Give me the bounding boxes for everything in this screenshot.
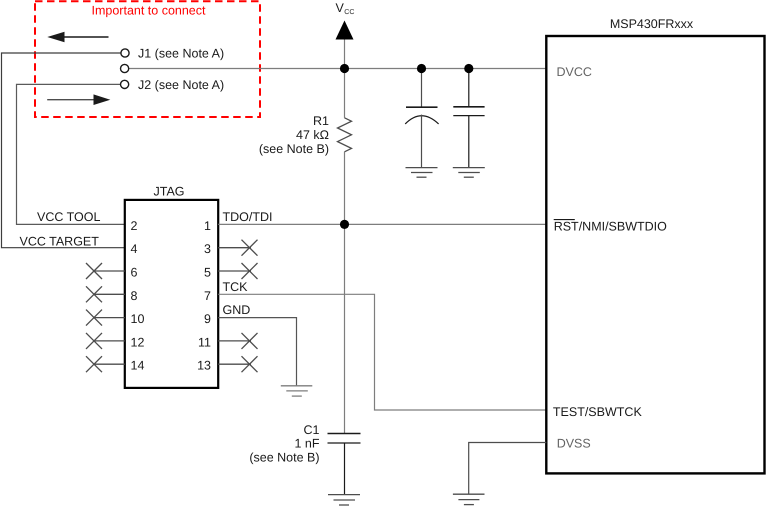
label R1 value (259, 114, 329, 156)
svg-text:J2 (see Note A): J2 (see Note A) (138, 78, 224, 92)
svg-text:14: 14 (131, 359, 145, 373)
svg-text:(see Note B): (see Note B) (259, 142, 329, 156)
svg-text:DVSS: DVSS (557, 436, 591, 450)
pin numbers (left column) (131, 219, 145, 373)
svg-text:CC: CC (344, 9, 354, 16)
red emphasis box "Important to connect" (35, 1, 260, 117)
svg-text:R1: R1 (313, 114, 329, 128)
arrow (left-pointing) (47, 32, 108, 43)
overline on RST (554, 219, 575, 221)
Vcc supply symbol (336, 21, 354, 69)
svg-text:GND: GND (223, 303, 251, 317)
svg-text:2: 2 (131, 219, 138, 233)
wire: DVSS to ground (469, 443, 547, 495)
wire: R1 down to C1 (344, 152, 346, 434)
svg-text:TEST/SBWTCK: TEST/SBWTCK (553, 405, 643, 419)
ground (polarized cap) (406, 168, 438, 178)
svg-text:(see Note B): (see Note B) (249, 451, 319, 465)
wire: TDO/TDI (pin 1) to MSP430 RST (218, 223, 546, 225)
ground (JTAG GND pin) (281, 386, 313, 396)
svg-text:TDO/TDI: TDO/TDI (223, 210, 273, 224)
node: Vcc rail / R1 junction (340, 64, 349, 73)
capacitor plate (top) (453, 106, 484, 108)
label C1 value (249, 423, 320, 465)
node: bypass cap 2 on rail (464, 64, 473, 73)
no-connect pin 12 (86, 333, 125, 349)
no-connect pin 13 (218, 356, 257, 372)
capacitor C1 plate (top) (328, 433, 361, 435)
ground (C1) (328, 495, 360, 505)
svg-text:TCK: TCK (223, 280, 249, 294)
wire: TCK (pin 7) to MSP430 TEST (218, 294, 546, 410)
ground (DVSS) (453, 494, 485, 504)
no-connect pin 11 (218, 333, 257, 349)
jumper center pin circle (121, 64, 129, 72)
capacitor curved plate (405, 116, 438, 124)
capacitor plate (top, polarized cap) (406, 106, 438, 108)
svg-text:47 kΩ: 47 kΩ (296, 128, 329, 142)
svg-text:11: 11 (198, 335, 211, 349)
no-connect pin 14 (86, 356, 125, 372)
wire: J1 to left vertical (2, 53, 125, 248)
svg-text:1: 1 (204, 219, 211, 233)
svg-text:10: 10 (131, 312, 145, 326)
capacitor C1 plate (bottom) (328, 442, 361, 444)
capacitor plate (bottom) (453, 115, 484, 117)
svg-text:7: 7 (204, 289, 211, 303)
svg-text:VCC TARGET: VCC TARGET (20, 234, 100, 248)
svg-text:RST/NMI/SBWTDIO: RST/NMI/SBWTDIO (554, 220, 667, 234)
resistor R1 47 kOhm (338, 118, 352, 152)
svg-text:8: 8 (131, 289, 138, 303)
pin numbers (right column) (197, 219, 211, 373)
svg-text:1 nF: 1 nF (294, 437, 319, 451)
svg-text:9: 9 (204, 312, 211, 326)
no-connect pin 3 (218, 240, 257, 256)
node: bypass cap 1 on rail (417, 64, 426, 73)
svg-text:V: V (336, 1, 345, 15)
jumper J2 pin circle (121, 80, 129, 88)
node: RST wire junction (340, 220, 349, 229)
no-connect pin 6 (86, 263, 125, 279)
wire: J2 to second vertical (17, 84, 125, 224)
MSP430FRxxx device box (546, 36, 764, 473)
svg-text:C1: C1 (304, 423, 320, 437)
wire: Vcc rail (center pin to MSP430 DVCC) (129, 68, 546, 70)
wire: C1 to ground (344, 443, 346, 495)
wire: GND (pin 9) to ground (218, 318, 296, 386)
no-connect pin 8 (86, 286, 125, 302)
svg-text:MSP430FRxxx: MSP430FRxxx (610, 17, 694, 31)
svg-text:Important to connect: Important to connect (92, 4, 206, 18)
svg-text:6: 6 (131, 266, 138, 280)
capacitor (polarized, bypass) lead (421, 69, 423, 108)
svg-text:J1 (see Note A): J1 (see Note A) (138, 47, 224, 61)
svg-text:JTAG: JTAG (153, 185, 184, 199)
svg-text:DVCC: DVCC (557, 65, 592, 79)
svg-text:3: 3 (204, 242, 211, 256)
svg-text:13: 13 (197, 359, 211, 373)
svg-text:12: 12 (131, 335, 145, 349)
wire: ceramic cap to ground (468, 116, 470, 168)
no-connect pin 5 (218, 263, 257, 279)
svg-text:VCC TOOL: VCC TOOL (37, 210, 100, 224)
ground (ceramic cap) (453, 168, 485, 178)
jumper J1 pin circle (121, 49, 129, 57)
svg-text:4: 4 (131, 242, 138, 256)
JTAG connector box (125, 200, 218, 388)
wire: polarized cap to ground (421, 115, 423, 168)
arrow (right-pointing) (47, 94, 110, 105)
no-connect pin 10 (86, 310, 125, 326)
wire: rail down to R1 (344, 69, 346, 118)
capacitor (ceramic, bypass) lead (468, 69, 470, 107)
svg-text:5: 5 (204, 266, 211, 280)
